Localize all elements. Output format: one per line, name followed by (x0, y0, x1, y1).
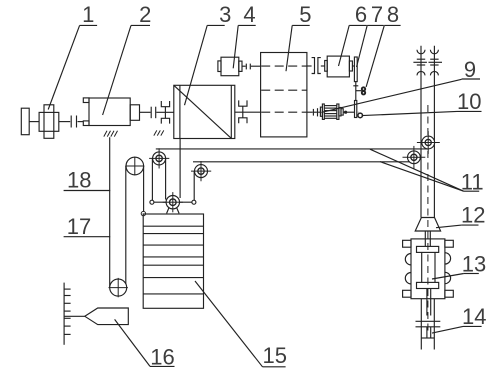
svg-text:8: 8 (387, 2, 399, 27)
svg-text:9: 9 (464, 57, 476, 82)
svg-text:16: 16 (150, 344, 174, 369)
svg-text:10: 10 (457, 89, 481, 114)
svg-text:18: 18 (67, 168, 91, 193)
svg-text:13: 13 (462, 252, 486, 277)
svg-text:14: 14 (462, 304, 486, 329)
svg-text:6: 6 (355, 2, 367, 27)
svg-text:11: 11 (461, 169, 484, 194)
svg-text:12: 12 (461, 202, 485, 227)
svg-text:7: 7 (371, 2, 383, 27)
svg-text:5: 5 (299, 2, 311, 27)
svg-text:2: 2 (139, 2, 151, 27)
svg-text:1: 1 (82, 2, 94, 27)
svg-text:15: 15 (263, 343, 287, 368)
svg-text:4: 4 (243, 2, 255, 27)
svg-text:17: 17 (67, 214, 91, 239)
svg-text:3: 3 (219, 2, 231, 27)
